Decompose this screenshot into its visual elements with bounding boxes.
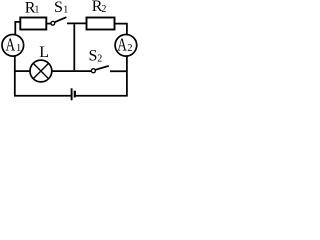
resistor R2: [87, 18, 115, 30]
wire: A2 down right column to battery: [76, 56, 127, 96]
svg-text:S: S: [89, 48, 98, 65]
wire: A1 down left column to bottom wire: [15, 56, 71, 96]
wire: S1 to R2: [67, 22, 87, 24]
svg-text:1: 1: [63, 4, 68, 15]
battery long plate: [71, 88, 73, 100]
svg-text:A: A: [6, 35, 16, 55]
svg-text:2: 2: [97, 53, 102, 64]
svg-text:1: 1: [16, 43, 21, 54]
switch S2 blade: [95, 66, 109, 70]
wire: R1 to S1: [46, 23, 51, 25]
wire: R2 to A2: [115, 24, 127, 35]
resistor R1: [20, 18, 46, 30]
lamp L: [30, 60, 52, 82]
switch S2 pivot: [91, 69, 95, 73]
ammeter A1: [2, 35, 24, 57]
switch S1 blade: [55, 17, 67, 22]
wire: top-left corner from A1 up to R1: [15, 22, 20, 35]
battery short plate: [74, 91, 76, 98]
wire: lamp to S2: [52, 70, 92, 72]
ammeter A2: [115, 35, 137, 57]
wire: middle branch from left column to lamp: [15, 70, 30, 72]
wire: S2 to right column: [110, 70, 127, 72]
switch S1 pivot: [51, 21, 55, 25]
svg-text:2: 2: [127, 43, 132, 54]
svg-text:2: 2: [101, 4, 106, 15]
wire: middle vertical junction branch: [73, 24, 75, 70]
svg-text:S: S: [54, 0, 63, 16]
svg-text:1: 1: [34, 5, 39, 16]
svg-text:A: A: [117, 35, 127, 55]
svg-text:L: L: [39, 44, 49, 61]
